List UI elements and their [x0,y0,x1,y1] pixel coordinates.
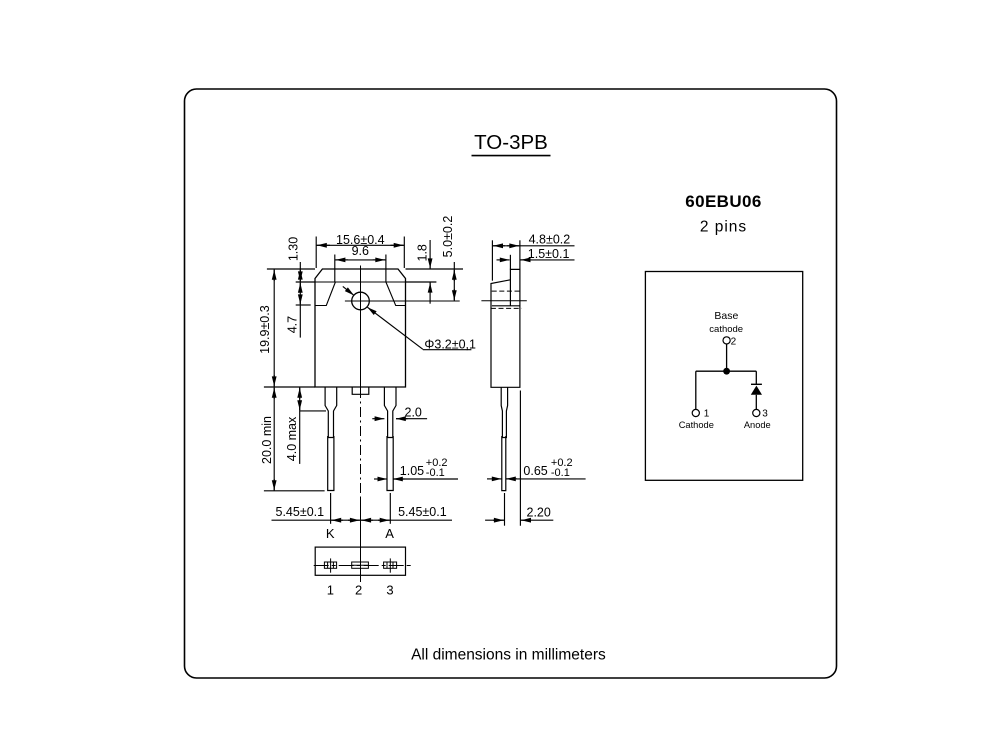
package body outline (front view) [315,269,406,387]
dimension 4.0 max [285,387,326,464]
recess bottom left extension line [296,304,311,306]
center lead stub pin2 [352,387,369,394]
svg-text:1: 1 [327,583,334,598]
dimension 2.0 [372,406,427,420]
svg-text:Cathode: Cathode [679,420,714,430]
diagram box [645,272,802,481]
body bottom-left extension line [264,386,315,388]
svg-text:3: 3 [762,409,768,420]
lead A center extension [389,493,391,524]
svg-text:1.30: 1.30 [286,237,300,261]
svg-text:All dimensions in millimeters: All dimensions in millimeters [411,647,606,664]
SIDE VIEW [481,269,526,490]
dimension 5.45±0.1 right [361,505,446,520]
svg-text:-0.1: -0.1 [426,467,445,479]
svg-text:20.0 min: 20.0 min [260,416,274,464]
side view hole centerline [481,300,526,302]
dimension 4.7 [286,283,301,333]
svg-text:5.45±0.1: 5.45±0.1 [276,505,325,519]
junction node [723,368,730,375]
bottom view outline [315,547,405,575]
svg-text:A: A [385,526,394,541]
dimension 2.20 [485,506,553,521]
diode D1 cathode bar [751,383,762,385]
recess trapezoid right slant [386,282,406,306]
svg-text:4.0 max: 4.0 max [285,416,299,461]
wire from terminal 2 to junction [726,344,728,371]
FRONT VIEW DIMENSIONS [258,216,476,541]
terminal 1 circle [692,409,699,416]
dimension 5.0±0.2 [441,216,455,301]
svg-text:TO-3PB: TO-3PB [474,131,548,154]
side view recess bottom line [492,305,520,307]
1.5 extension line [509,255,511,270]
lead bottom extension line [264,490,325,492]
hole horizontal centerline [345,300,460,302]
pad 1 [324,558,336,572]
svg-text:cathode: cathode [709,324,743,335]
dimension 1.05 +0.2 -0.1 [374,457,458,479]
lead A right outline [384,387,396,438]
svg-text:Φ3.2±0,1: Φ3.2±0,1 [424,337,476,351]
svg-text:0.65: 0.65 [523,464,547,478]
svg-text:2.0: 2.0 [405,406,422,420]
wire horizontal bus [696,370,757,372]
svg-text:60EBU06: 60EBU06 [685,192,762,211]
title TO-3PB [472,131,551,156]
dimension 1.8 [416,240,430,304]
svg-text:1.8: 1.8 [416,244,430,261]
side view body outline [491,269,520,387]
dimension 19.9±0.3 [258,269,274,387]
wire from diode to terminal 3 [755,395,757,410]
svg-text:1: 1 [704,409,710,420]
dimension 0.65 +0.2 -0.1 [487,457,586,479]
svg-text:Base: Base [714,310,738,322]
svg-text:19.9±0.3: 19.9±0.3 [258,305,272,354]
body top-right extension line [406,268,464,270]
svg-text:2: 2 [731,336,737,347]
svg-text:1.5±0.1: 1.5±0.1 [528,247,570,261]
dimension 15.6±0.4 [316,233,404,268]
svg-text:2.20: 2.20 [527,506,551,520]
wire down to terminal 1 [695,371,697,409]
side view lead outline [501,387,507,437]
side right edge extension up [519,240,521,269]
tab collar line [315,281,406,283]
dimension 20.0 min [260,387,274,491]
bottom view horizontal centerline [314,565,412,567]
wire down to diode [755,371,757,384]
dimension 4.8±0.2 [492,233,574,247]
side view hidden line upper [492,290,520,292]
body top-left extension line [267,268,315,270]
side right edge extension down [519,391,521,526]
package vertical centerline [360,266,362,389]
svg-text:4.8±0.2: 4.8±0.2 [529,233,571,247]
terminal 2 circle [723,337,730,344]
svg-text:2: 2 [355,583,362,598]
svg-text:3: 3 [386,583,393,598]
svg-text:K: K [326,526,335,541]
collar right extension line [406,281,437,283]
svg-text:5.0±0.2: 5.0±0.2 [441,216,455,258]
terminal 3 circle [753,409,760,416]
FRONT VIEW [315,269,406,387]
svg-text:4.7: 4.7 [286,316,300,333]
dimension 1.5±0.1 [497,247,575,261]
side 4.8 left extension [491,240,493,280]
pad 2 [352,562,369,568]
svg-text:1.05: 1.05 [400,464,424,478]
svg-text:5.45±0.1: 5.45±0.1 [398,505,447,519]
svg-text:-0.1: -0.1 [551,467,570,479]
SIDE VIEW DIMENSIONS [485,233,585,526]
recess trapezoid left slant [315,282,335,306]
pad 3 [384,558,397,572]
mounting hole [352,292,370,310]
svg-text:2 pins: 2 pins [700,219,747,236]
lead K center extension [330,493,332,524]
BOTTOM VIEW [314,547,412,575]
dimension 9.6 [335,244,386,281]
lead K left outline [325,387,337,438]
side view hidden line lower [491,307,522,309]
collar left extension line [296,281,315,283]
svg-text:Anode: Anode [744,420,771,430]
side lead center extension [504,493,506,526]
side view tab left edge [509,280,511,306]
dimension 5.45±0.1 left [272,505,453,520]
hole diameter leader Φ3.2±0,1 [343,286,476,351]
dimension 1.30 [286,237,300,338]
diode D1 triangle [751,386,762,395]
svg-text:9.6: 9.6 [352,244,369,258]
